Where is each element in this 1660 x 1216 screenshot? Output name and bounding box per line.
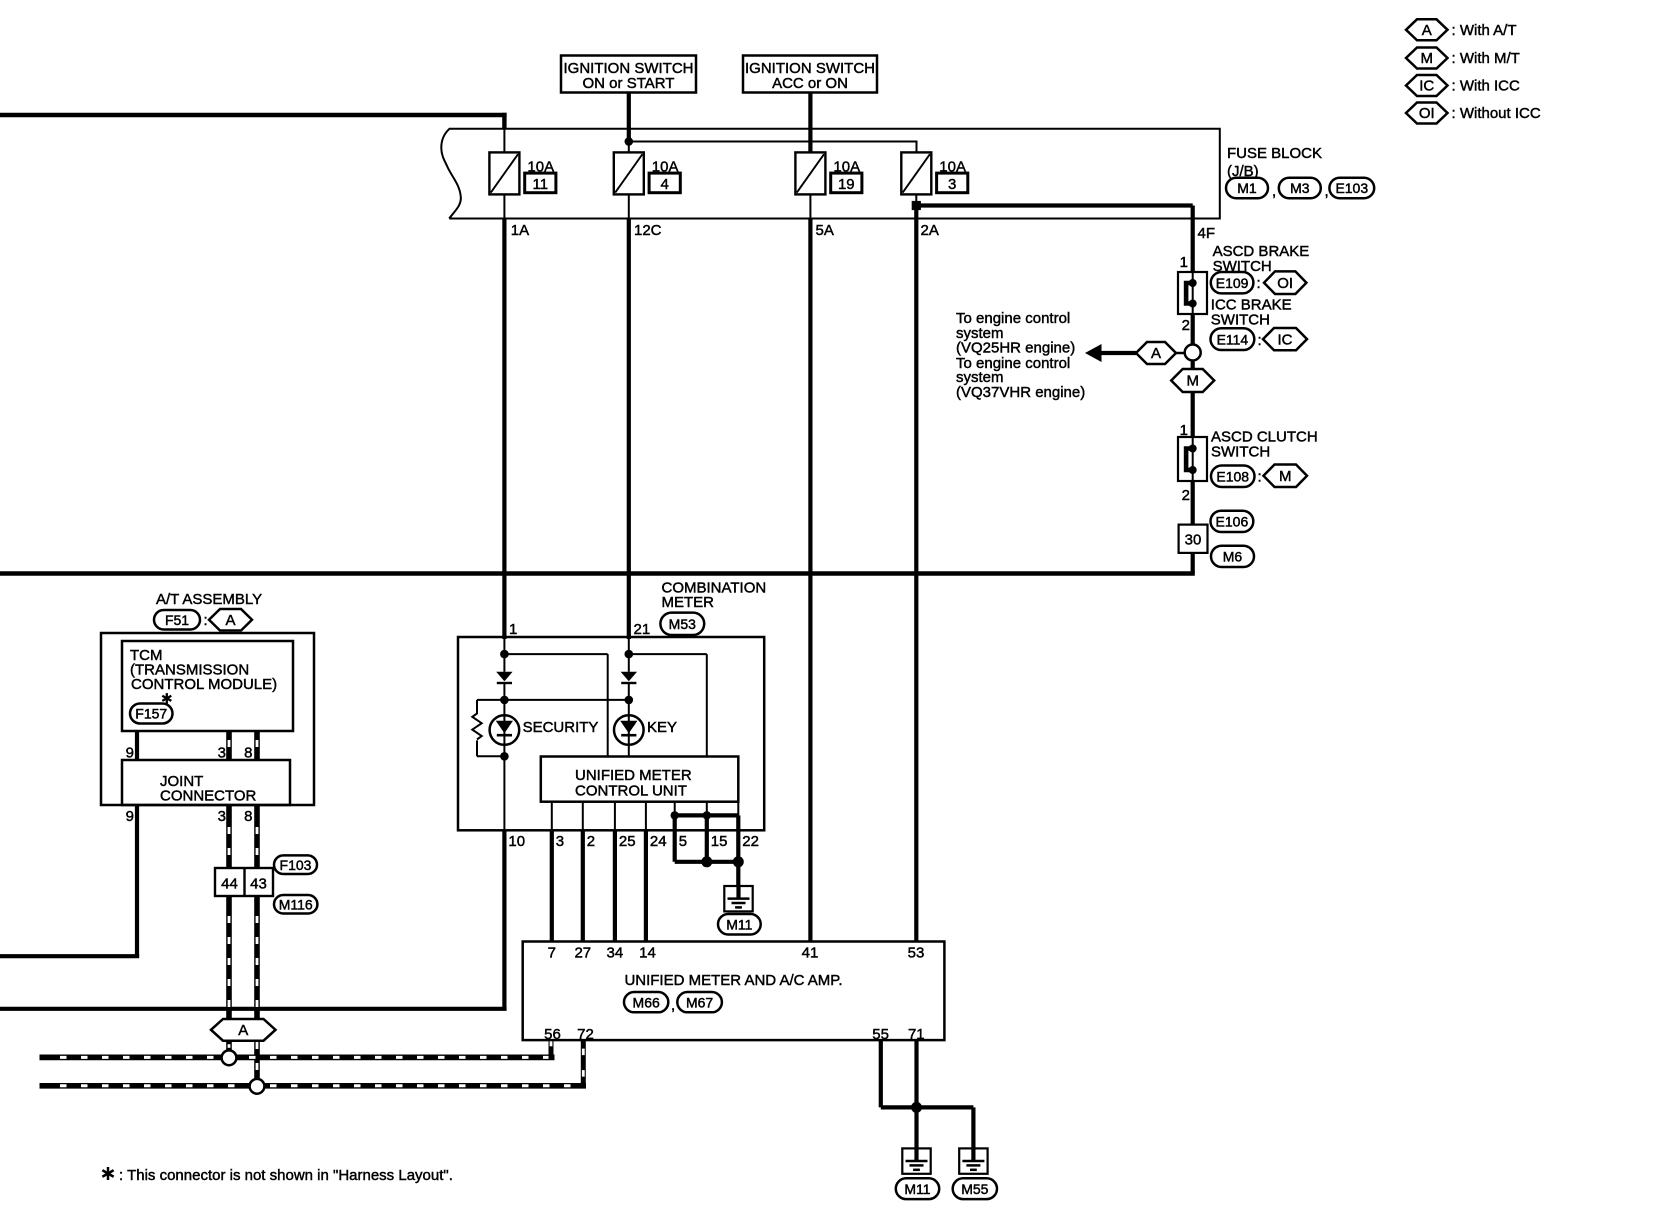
svg-text:A: A xyxy=(1151,345,1161,362)
svg-text:22: 22 xyxy=(742,833,759,850)
svg-text:M55: M55 xyxy=(961,1181,988,1197)
svg-text:9: 9 xyxy=(126,808,134,825)
svg-text:10: 10 xyxy=(508,833,525,850)
svg-text:27: 27 xyxy=(574,944,591,961)
svg-text:M: M xyxy=(1186,373,1199,390)
svg-text:IC: IC xyxy=(1419,78,1434,95)
svg-text:19: 19 xyxy=(838,176,855,193)
svg-text:SWITCH: SWITCH xyxy=(1211,444,1270,461)
svg-text:M67: M67 xyxy=(686,994,713,1010)
svg-text:,: , xyxy=(1272,183,1276,200)
svg-text:1A: 1A xyxy=(511,222,529,239)
svg-text:M11: M11 xyxy=(726,916,752,932)
svg-text:: With M/T: : With M/T xyxy=(1452,50,1520,67)
svg-text:IC: IC xyxy=(1278,331,1293,348)
svg-text:OI: OI xyxy=(1419,105,1435,122)
svg-text:F157: F157 xyxy=(135,706,167,722)
svg-text::: : xyxy=(1258,332,1262,349)
svg-text:1: 1 xyxy=(509,621,517,638)
svg-text:,: , xyxy=(1325,183,1329,200)
svg-text:CONTROL UNIT: CONTROL UNIT xyxy=(575,783,687,800)
svg-text:5: 5 xyxy=(679,833,687,850)
svg-text:E106: E106 xyxy=(1216,514,1249,530)
svg-text:FUSE BLOCK: FUSE BLOCK xyxy=(1227,145,1322,162)
svg-text:SWITCH: SWITCH xyxy=(1211,312,1270,329)
svg-text:F51: F51 xyxy=(165,612,189,628)
svg-text:UNIFIED METER AND A/C AMP.: UNIFIED METER AND A/C AMP. xyxy=(624,972,842,989)
svg-text:2A: 2A xyxy=(921,222,939,239)
svg-text:44: 44 xyxy=(221,876,238,893)
svg-text:ACC or ON: ACC or ON xyxy=(772,75,848,92)
svg-text:M116: M116 xyxy=(279,896,313,912)
svg-text:A: A xyxy=(238,1022,248,1039)
svg-text:A: A xyxy=(225,612,235,629)
svg-text:21: 21 xyxy=(634,621,651,638)
svg-text:(VQ25HR engine): (VQ25HR engine) xyxy=(956,339,1075,356)
svg-text:3: 3 xyxy=(948,176,956,193)
svg-text:15: 15 xyxy=(711,833,728,850)
svg-text:E103: E103 xyxy=(1335,180,1368,196)
svg-text:F103: F103 xyxy=(280,857,312,873)
svg-text:E109: E109 xyxy=(1216,275,1249,291)
svg-text:8: 8 xyxy=(244,808,252,825)
svg-text:1: 1 xyxy=(1180,254,1188,271)
svg-text:M: M xyxy=(1279,468,1292,485)
svg-text:4F: 4F xyxy=(1198,225,1216,242)
svg-text:,: , xyxy=(671,997,675,1014)
svg-text:3: 3 xyxy=(218,745,226,762)
svg-text:A: A xyxy=(1422,22,1432,39)
svg-text:2: 2 xyxy=(1182,317,1190,334)
svg-text:M6: M6 xyxy=(1223,549,1243,565)
svg-text:UNIFIED METER: UNIFIED METER xyxy=(575,767,692,784)
svg-text:: With ICC: : With ICC xyxy=(1452,78,1521,95)
svg-text:METER: METER xyxy=(662,594,715,611)
svg-text:M1: M1 xyxy=(1237,180,1257,196)
svg-text:7: 7 xyxy=(548,944,556,961)
svg-text:M: M xyxy=(1421,50,1434,67)
svg-text:: With A/T: : With A/T xyxy=(1452,22,1517,39)
svg-text:: Without ICC: : Without ICC xyxy=(1452,105,1541,122)
svg-text::: : xyxy=(1257,275,1261,292)
svg-text:OI: OI xyxy=(1277,275,1293,292)
svg-text:2: 2 xyxy=(587,833,595,850)
svg-text:34: 34 xyxy=(607,944,624,961)
svg-text::: : xyxy=(1258,469,1262,486)
svg-text:43: 43 xyxy=(250,876,267,893)
svg-text:M53: M53 xyxy=(669,616,696,632)
svg-text:9: 9 xyxy=(126,745,134,762)
svg-text:3: 3 xyxy=(218,808,226,825)
svg-text:2: 2 xyxy=(1182,487,1190,504)
svg-text:(VQ37VHR engine): (VQ37VHR engine) xyxy=(956,384,1085,401)
svg-text:30: 30 xyxy=(1185,532,1202,549)
svg-text:CONNECTOR: CONNECTOR xyxy=(160,788,257,805)
svg-text:SECURITY: SECURITY xyxy=(523,719,599,736)
svg-text:12C: 12C xyxy=(634,222,662,239)
svg-text:KEY: KEY xyxy=(647,719,677,736)
svg-text:11: 11 xyxy=(533,176,549,193)
svg-text:24: 24 xyxy=(650,833,667,850)
svg-text::: : xyxy=(204,612,208,629)
svg-text:CONTROL MODULE): CONTROL MODULE) xyxy=(131,676,277,693)
svg-text:: This connector is not shown: : This connector is not shown in "Harnes… xyxy=(119,1167,453,1184)
svg-text:8: 8 xyxy=(244,745,252,762)
svg-text:4: 4 xyxy=(661,176,669,193)
svg-text:M11: M11 xyxy=(904,1181,930,1197)
svg-text:E114: E114 xyxy=(1217,331,1249,347)
svg-text:A/T ASSEMBLY: A/T ASSEMBLY xyxy=(156,591,262,608)
svg-text:E108: E108 xyxy=(1216,468,1249,484)
svg-text:41: 41 xyxy=(802,944,819,961)
svg-text:ON or START: ON or START xyxy=(583,75,675,92)
svg-text:14: 14 xyxy=(639,944,656,961)
svg-text:5A: 5A xyxy=(816,222,834,239)
svg-text:M66: M66 xyxy=(633,994,660,1010)
svg-text:25: 25 xyxy=(619,833,636,850)
svg-text:M3: M3 xyxy=(1290,180,1310,196)
svg-text:3: 3 xyxy=(556,833,564,850)
svg-text:53: 53 xyxy=(908,944,925,961)
